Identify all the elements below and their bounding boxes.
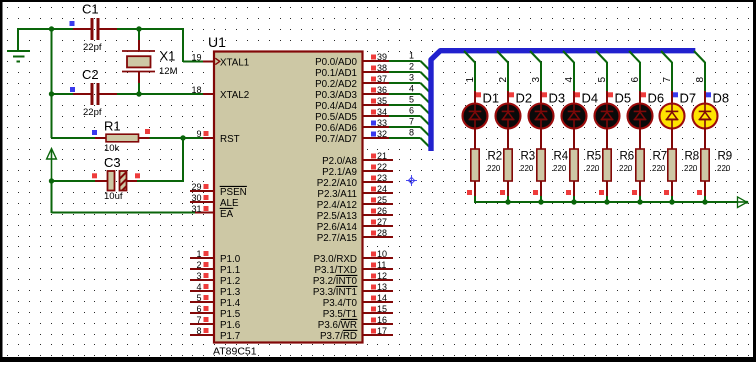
svg-text:P2.7/A15: P2.7/A15 <box>317 233 358 244</box>
svg-text:R2: R2 <box>488 151 503 163</box>
svg-text:P0.5/AD5: P0.5/AD5 <box>315 112 357 123</box>
svg-text:7: 7 <box>409 117 414 127</box>
svg-text:11: 11 <box>377 260 386 270</box>
svg-text:C3: C3 <box>104 155 121 170</box>
svg-text:220: 220 <box>487 164 501 173</box>
svg-text:X1: X1 <box>160 49 176 64</box>
svg-text:D1: D1 <box>483 90 500 105</box>
svg-text:P3.7/RD: P3.7/RD <box>320 331 357 342</box>
svg-text:28: 28 <box>377 228 387 238</box>
svg-text:19: 19 <box>191 53 201 63</box>
svg-text:P1.4: P1.4 <box>220 298 241 309</box>
svg-text:4: 4 <box>196 282 201 292</box>
svg-text:16: 16 <box>377 315 387 325</box>
svg-text:D3: D3 <box>549 90 566 105</box>
svg-text:14: 14 <box>377 293 387 303</box>
svg-text:220: 220 <box>684 164 698 173</box>
svg-text:P3.3/INT1: P3.3/INT1 <box>313 287 357 298</box>
svg-text:7: 7 <box>196 315 201 325</box>
svg-text:P0.0/AD0: P0.0/AD0 <box>315 57 357 68</box>
svg-text:R8: R8 <box>685 151 700 163</box>
svg-text:23: 23 <box>377 173 387 183</box>
svg-text:10k: 10k <box>104 143 120 154</box>
svg-text:22pf: 22pf <box>83 107 102 118</box>
svg-text:33: 33 <box>377 118 387 128</box>
svg-text:4: 4 <box>564 77 575 83</box>
svg-text:C2: C2 <box>82 67 99 82</box>
svg-text:P1.6: P1.6 <box>220 320 241 331</box>
svg-text:5: 5 <box>196 293 201 303</box>
svg-text:PSEN: PSEN <box>220 187 247 198</box>
svg-text:P2.1/A9: P2.1/A9 <box>322 167 357 178</box>
svg-text:6: 6 <box>409 106 414 116</box>
svg-text:1: 1 <box>409 51 414 61</box>
svg-text:2: 2 <box>196 260 201 270</box>
svg-text:P1.7: P1.7 <box>220 331 240 342</box>
svg-text:XTAL1: XTAL1 <box>220 57 249 68</box>
svg-text:R1: R1 <box>104 119 121 134</box>
svg-text:ALE: ALE <box>220 198 239 209</box>
svg-text:9: 9 <box>196 129 201 139</box>
svg-text:12M: 12M <box>159 66 178 77</box>
svg-text:5: 5 <box>597 77 608 83</box>
svg-text:12: 12 <box>377 271 387 281</box>
svg-text:P0.7/AD7: P0.7/AD7 <box>315 134 357 145</box>
svg-text:3: 3 <box>409 73 414 83</box>
svg-text:P1.2: P1.2 <box>220 276 240 287</box>
svg-text:D8: D8 <box>713 90 730 105</box>
svg-text:31: 31 <box>191 204 201 214</box>
svg-text:P3.1/TXD: P3.1/TXD <box>315 265 357 276</box>
svg-text:D5: D5 <box>615 90 632 105</box>
svg-text:220: 220 <box>553 164 567 173</box>
svg-text:P2.6/A14: P2.6/A14 <box>317 222 358 233</box>
svg-text:15: 15 <box>377 304 387 314</box>
svg-text:18: 18 <box>191 85 201 95</box>
svg-text:29: 29 <box>191 182 201 192</box>
svg-text:27: 27 <box>377 217 387 227</box>
svg-text:13: 13 <box>377 282 387 292</box>
svg-text:220: 220 <box>652 164 666 173</box>
svg-text:220: 220 <box>520 164 534 173</box>
svg-text:39: 39 <box>377 52 387 62</box>
svg-text:R4: R4 <box>554 151 569 163</box>
svg-text:P3.0/RXD: P3.0/RXD <box>313 254 357 265</box>
svg-text:37: 37 <box>377 74 387 84</box>
svg-text:P2.2/A10: P2.2/A10 <box>317 178 358 189</box>
svg-text:R9: R9 <box>718 151 733 163</box>
svg-text:2: 2 <box>498 77 509 83</box>
svg-text:36: 36 <box>377 85 387 95</box>
svg-text:P1.1: P1.1 <box>220 265 240 276</box>
svg-text:AT89C51: AT89C51 <box>213 346 257 358</box>
svg-text:22pf: 22pf <box>83 42 102 53</box>
svg-text:R3: R3 <box>521 151 536 163</box>
svg-text:10uf: 10uf <box>104 191 123 202</box>
svg-text:R5: R5 <box>587 151 602 163</box>
svg-text:22: 22 <box>377 162 387 172</box>
svg-text:21: 21 <box>377 151 387 161</box>
svg-text:P3.4/T0: P3.4/T0 <box>323 298 358 309</box>
svg-text:38: 38 <box>377 63 387 73</box>
svg-text:26: 26 <box>377 206 387 216</box>
svg-text:P1.5: P1.5 <box>220 309 241 320</box>
svg-text:8: 8 <box>196 326 201 336</box>
svg-text:D7: D7 <box>680 90 697 105</box>
svg-text:6: 6 <box>196 304 201 314</box>
svg-text:P1.0: P1.0 <box>220 254 241 265</box>
svg-text:7: 7 <box>662 77 673 83</box>
svg-text:P1.3: P1.3 <box>220 287 241 298</box>
svg-text:10: 10 <box>377 249 387 259</box>
svg-text:30: 30 <box>191 193 201 203</box>
svg-text:P3.6/WR: P3.6/WR <box>318 320 357 331</box>
svg-text:220: 220 <box>717 164 731 173</box>
svg-text:P2.4/A12: P2.4/A12 <box>317 200 357 211</box>
svg-text:C1: C1 <box>82 2 99 17</box>
svg-text:24: 24 <box>377 184 387 194</box>
svg-text:8: 8 <box>409 128 414 138</box>
svg-text:17: 17 <box>377 326 387 336</box>
svg-text:2: 2 <box>409 62 414 72</box>
svg-text:25: 25 <box>377 195 387 205</box>
svg-text:220: 220 <box>586 164 600 173</box>
svg-text:R7: R7 <box>653 151 668 163</box>
svg-text:4: 4 <box>409 84 414 94</box>
svg-text:6: 6 <box>630 77 641 83</box>
svg-text:3: 3 <box>531 77 542 83</box>
svg-text:U1: U1 <box>208 34 226 50</box>
svg-text:1: 1 <box>465 77 476 83</box>
svg-text:P0.3/AD3: P0.3/AD3 <box>315 90 357 101</box>
svg-text:3: 3 <box>196 271 201 281</box>
svg-text:P0.1/AD1: P0.1/AD1 <box>315 68 357 79</box>
svg-text:RST: RST <box>220 134 240 145</box>
svg-text:P3.2/INT0: P3.2/INT0 <box>313 276 358 287</box>
svg-text:P2.0/A8: P2.0/A8 <box>322 156 357 167</box>
svg-text:P0.2/AD2: P0.2/AD2 <box>315 79 357 90</box>
svg-text:R6: R6 <box>620 151 635 163</box>
svg-text:34: 34 <box>377 107 387 117</box>
svg-text:P3.5/T1: P3.5/T1 <box>323 309 357 320</box>
svg-text:D4: D4 <box>582 90 599 105</box>
svg-text:5: 5 <box>409 95 414 105</box>
svg-text:35: 35 <box>377 96 387 106</box>
svg-text:P2.3/A11: P2.3/A11 <box>317 189 357 200</box>
svg-text:32: 32 <box>377 129 387 139</box>
svg-text:1: 1 <box>196 249 201 259</box>
svg-text:XTAL2: XTAL2 <box>220 90 249 101</box>
svg-text:D6: D6 <box>648 90 665 105</box>
svg-text:P0.4/AD4: P0.4/AD4 <box>315 101 357 112</box>
svg-text:P0.6/AD6: P0.6/AD6 <box>315 123 357 134</box>
svg-text:220: 220 <box>619 164 633 173</box>
svg-text:P2.5/A13: P2.5/A13 <box>317 211 358 222</box>
svg-text:D2: D2 <box>516 90 533 105</box>
svg-text:EA: EA <box>220 209 234 220</box>
svg-text:8: 8 <box>695 77 706 83</box>
